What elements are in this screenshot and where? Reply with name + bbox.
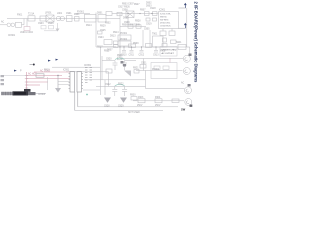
ground	[104, 98, 111, 103]
capacitor C904	[104, 40, 112, 45]
vertical bus left	[95, 19, 97, 48]
capacitor C917b	[117, 12, 122, 16]
main AC rail	[7, 18, 120, 20]
off-page arrow blue3	[48, 60, 51, 62]
capacitor C902	[41, 26, 46, 29]
fuse F902	[178, 45, 186, 50]
note box	[160, 47, 177, 57]
wire long rail 2	[75, 110, 163, 112]
wire P5	[34, 71, 70, 73]
svg-text:R930: R930	[130, 95, 136, 97]
svg-text:CN951: CN951	[84, 65, 92, 67]
wire	[143, 59, 145, 71]
svg-text:D903: D903	[146, 6, 152, 8]
svg-text:C911: C911	[129, 55, 135, 57]
diode D920	[124, 71, 131, 77]
off-page arrow blue1	[184, 3, 187, 29]
fuse F901	[28, 16, 35, 21]
capacitor C922	[114, 87, 116, 90]
wire	[47, 77, 49, 90]
connector CN903 pins	[3, 92, 11, 95]
junction dots	[119, 13, 156, 48]
svg-text:R921: R921	[133, 68, 139, 70]
jack J904	[185, 99, 192, 106]
fuse F904	[155, 99, 162, 103]
teal wire hop 1	[115, 58, 125, 59]
svg-text:AC: AC	[1, 21, 5, 24]
svg-text:L901: L901	[57, 13, 63, 15]
jack J901	[183, 55, 190, 62]
relay contact marks	[121, 61, 124, 64]
svg-text:R910: R910	[44, 70, 50, 72]
svg-text:R909: R909	[133, 43, 139, 45]
node dot	[33, 64, 35, 66]
diode bridge box	[98, 15, 106, 23]
resistor R910	[36, 74, 44, 77]
connector CN903 key	[24, 89, 31, 92]
connector CN903 tail	[28, 92, 36, 95]
wire	[74, 92, 76, 111]
svg-text:NOT USED: NOT USED	[128, 112, 140, 114]
svg-text:F902: F902	[160, 51, 166, 53]
svg-text:250V: 250V	[137, 105, 143, 107]
resistor R924	[169, 31, 175, 36]
wire	[179, 7, 186, 9]
diode D908	[163, 38, 167, 42]
svg-text:R920: R920	[117, 55, 123, 57]
wire	[186, 47, 190, 54]
svg-text:F901: F901	[17, 15, 23, 17]
wire long rail 1	[78, 106, 178, 108]
plug P901	[7, 23, 11, 27]
wire stub	[58, 81, 70, 83]
capacitor C913	[155, 47, 157, 50]
svg-text:R901: R901	[74, 14, 80, 16]
wire	[4, 75, 27, 77]
wire net A	[52, 66, 101, 68]
resistor R920	[118, 57, 123, 60]
capacitor C911	[131, 47, 133, 50]
wire P6	[27, 84, 41, 86]
tiny harness labels	[28, 70, 51, 76]
svg-text:C928: C928	[104, 105, 110, 107]
wire	[36, 92, 47, 94]
IC952 regulator strip	[75, 72, 83, 111]
IC901 inner text	[160, 14, 171, 28]
svg-text:SW: SW	[181, 107, 186, 111]
svg-text:C908: C908	[122, 10, 128, 12]
line filter LF901	[46, 15, 54, 22]
svg-text:R911: R911	[104, 51, 110, 53]
resistor R921	[134, 70, 139, 74]
node D	[57, 75, 58, 76]
svg-text:C922: C922	[105, 84, 111, 86]
note text	[162, 50, 177, 55]
photocoupler PC901	[118, 35, 131, 40]
svg-text:D913: D913	[110, 36, 116, 38]
stage2 wire	[96, 85, 146, 87]
svg-text:C905: C905	[144, 29, 150, 31]
ground	[55, 88, 61, 93]
diode D906	[162, 44, 167, 48]
svg-text:D902: D902	[146, 3, 152, 5]
svg-text:R902: R902	[105, 23, 111, 25]
switch S903	[40, 16, 46, 21]
pink harness wires	[25, 72, 70, 92]
svg-text:IC901: IC901	[159, 10, 166, 12]
svg-text:C931: C931	[141, 63, 147, 65]
svg-text:C925: C925	[100, 30, 106, 32]
diode D909	[171, 40, 177, 44]
capacitor C912	[141, 47, 143, 50]
wire P1	[27, 75, 63, 77]
svg-text:R928: R928	[135, 21, 141, 23]
svg-text:D910 D911: D910 D911	[160, 23, 171, 25]
svg-text:C918: C918	[150, 8, 156, 10]
jack inner marks	[185, 58, 189, 104]
svg-text:C929: C929	[118, 105, 124, 107]
thermistor TH901	[106, 69, 112, 73]
connector CN903 shell	[13, 91, 29, 95]
tiny value labels top-left	[1, 12, 111, 38]
choke L901	[56, 16, 61, 21]
svg-text:IC901 STR-: IC901 STR-	[160, 14, 171, 16]
svg-text:AC HOT: AC HOT	[28, 73, 37, 76]
wire	[22, 19, 25, 25]
svg-text:C919: C919	[146, 24, 152, 26]
tiny value labels top-mid	[100, 4, 156, 38]
capacitor C914	[114, 41, 119, 45]
svg-text:C920: C920	[106, 59, 112, 61]
capacitor C915	[114, 45, 119, 48]
capacitor C903	[49, 26, 54, 29]
wire	[57, 76, 59, 89]
wire P3	[27, 81, 49, 83]
svg-text:VA901 C902: VA901 C902	[20, 31, 34, 34]
svg-text:R914: R914	[113, 32, 119, 34]
resistor R905	[129, 44, 136, 48]
diode D903	[153, 12, 158, 16]
svg-text:C903: C903	[38, 23, 44, 25]
capacitor C905	[142, 30, 144, 47]
switch S902	[172, 99, 179, 103]
resistor R901	[75, 17, 80, 22]
vertical bus to output	[99, 47, 101, 95]
wire AC input	[0, 24, 7, 26]
off-page arrow blue2	[14, 70, 17, 72]
svg-text:W6756: W6756	[160, 17, 167, 19]
capacitor C931	[140, 65, 146, 69]
varistor VA901	[26, 19, 28, 27]
svg-text:D914: D914	[86, 25, 92, 27]
jack J902	[183, 68, 190, 75]
svg-text:F903: F903	[138, 97, 144, 99]
resistor R912	[146, 18, 150, 21]
rail output1	[84, 79, 146, 81]
wire DC rail top	[112, 13, 159, 15]
wire stub	[95, 13, 97, 19]
zener diode D904	[120, 26, 146, 28]
capacitor C910	[123, 47, 125, 50]
wire	[125, 60, 137, 62]
relay box K901	[151, 63, 177, 79]
capacitor C906	[149, 30, 151, 47]
resistor R930	[131, 97, 137, 101]
wire P4 vertical	[26, 72, 28, 92]
resistor R923	[160, 31, 166, 36]
vertical bus right	[119, 14, 121, 59]
photocoupler PC902	[118, 41, 131, 46]
svg-text:R917: R917	[97, 47, 103, 49]
wire to jack B	[136, 70, 183, 72]
resistor R915	[146, 44, 152, 48]
connector CN903 body	[1, 92, 13, 95]
wire net B	[66, 72, 109, 87]
wire stub	[58, 84, 70, 86]
svg-text:R927: R927	[134, 4, 140, 6]
IC951 regulator strip	[69, 72, 75, 93]
off-page arrow blue4	[56, 59, 59, 61]
svg-text:R908 C909 D905: R908 C909 D905	[122, 25, 140, 27]
resistor R902	[106, 12, 112, 16]
wire jack C feed	[133, 100, 184, 102]
wire pink drop	[169, 58, 171, 63]
svg-text:RY902: RY902	[152, 69, 160, 71]
svg-text:250V: 250V	[155, 105, 161, 107]
svg-text:RY901: RY901	[77, 12, 85, 14]
svg-text:R903 C907: R903 C907	[122, 4, 134, 6]
relay RY901	[85, 14, 97, 22]
diode D902	[145, 12, 150, 16]
wire	[44, 30, 58, 32]
connector CN951 pin column	[85, 68, 92, 83]
wire	[179, 27, 186, 29]
svg-text:C913: C913	[153, 55, 159, 57]
tiny value labels mid	[97, 37, 182, 114]
svg-text:LF901: LF901	[45, 13, 52, 15]
diode bridge D901	[126, 11, 134, 18]
svg-text:CN903: CN903	[38, 94, 46, 96]
svg-text:S901: S901	[176, 42, 182, 44]
svg-text:PC901: PC901	[120, 33, 128, 35]
svg-text:SW REG: SW REG	[160, 20, 169, 22]
wire to jack C	[146, 88, 185, 90]
fuse F903	[138, 99, 145, 103]
svg-text:R907: R907	[140, 10, 146, 12]
svg-text:C912: C912	[139, 55, 145, 57]
svg-text:D912: D912	[123, 18, 129, 20]
svg-text:F904: F904	[155, 97, 161, 99]
connector CN902 pins	[1, 75, 5, 77]
wire	[171, 29, 173, 32]
svg-text:R922: R922	[118, 84, 124, 86]
svg-text:PC902: PC902	[120, 39, 128, 41]
ground	[120, 98, 127, 103]
svg-text:C917 R926: C917 R926	[118, 7, 130, 9]
svg-text:2 I/F BOARD(Power) Schematic D: 2 I/F BOARD(Power) Schematic Diagrams	[194, 2, 199, 83]
svg-text:R929: R929	[100, 26, 106, 28]
capacitor C901	[67, 16, 73, 22]
IC901 regulator box	[159, 12, 179, 29]
wire to jack A	[120, 58, 183, 60]
capacitor C923	[124, 87, 126, 90]
wire	[83, 89, 100, 91]
ground	[57, 23, 59, 29]
svg-text:CN901: CN901	[8, 35, 16, 37]
wire P2	[27, 78, 71, 80]
svg-text:C904: C904	[98, 37, 104, 39]
wire	[102, 60, 115, 62]
node teal	[86, 94, 88, 96]
resistor R913	[153, 18, 157, 21]
capacitor C921	[124, 61, 126, 63]
resistor R916	[98, 31, 103, 34]
svg-text:IC951: IC951	[63, 70, 70, 72]
teal wire hop 2	[115, 84, 125, 85]
capacitor C920	[114, 61, 116, 63]
svg-text:R906: R906	[48, 23, 54, 25]
wire	[77, 92, 79, 107]
svg-text:C901: C901	[66, 13, 72, 15]
jack J903	[185, 87, 192, 94]
wire vertical right	[186, 8, 188, 47]
svg-text:D901: D901	[97, 13, 103, 15]
transformer T901	[153, 36, 164, 47]
mid rail	[96, 46, 186, 48]
svg-text:C916 R925: C916 R925	[160, 26, 171, 28]
resistor R904	[100, 46, 116, 48]
svg-text:T2.5A: T2.5A	[28, 13, 35, 16]
wire	[162, 29, 164, 32]
svg-text:AC: AC	[181, 82, 185, 85]
svg-text:T901: T901	[152, 34, 158, 36]
